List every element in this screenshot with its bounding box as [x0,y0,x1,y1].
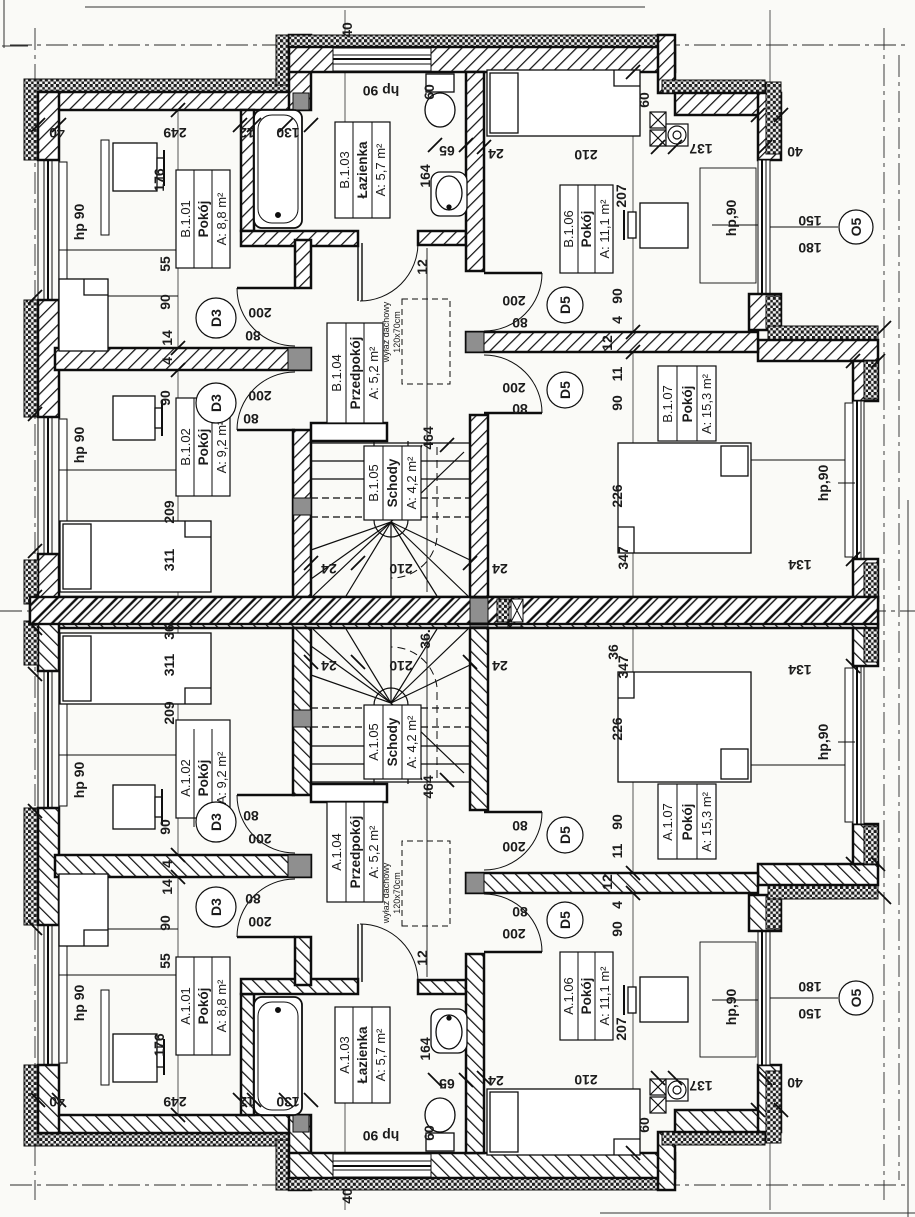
svg-text:A.1.05: A.1.05 [366,723,381,761]
right wall lower window [853,401,864,559]
svg-text:40: 40 [787,144,803,160]
svg-text:137: 137 [689,141,713,157]
room label A.1.02 Pokój [176,720,230,827]
svg-text:209: 209 [161,701,177,725]
svg-text:wyłaz dachowy: wyłaz dachowy [381,301,391,363]
door/window symbol D3 [196,802,236,842]
svg-text:120x70cm: 120x70cm [392,311,402,353]
svg-text:Pokój: Pokój [196,760,211,797]
svg-text:A.1.04: A.1.04 [329,833,344,871]
right step wall horizontal [758,340,878,361]
outer wall: top-center [289,47,675,72]
room label A.1.06 Pokój [560,952,613,1040]
toilet [425,74,455,127]
wall between B.1.01 and bathroom [241,110,254,231]
svg-text:A: 15,3 m²: A: 15,3 m² [699,791,714,852]
svg-text:hp 90: hp 90 [71,762,87,799]
svg-text:40: 40 [339,22,355,38]
svg-text:12: 12 [414,950,430,966]
svg-text:55: 55 [157,256,173,272]
svg-text:D5: D5 [557,911,573,929]
svg-text:200: 200 [248,914,272,930]
door/window symbol D3 [196,383,236,423]
svg-text:200: 200 [502,926,526,942]
svg-text:249: 249 [163,1094,187,1110]
svg-text:60: 60 [636,92,652,108]
door D3 to B.1.02 [237,372,295,430]
svg-text:Przedpokój: Przedpokój [348,337,363,410]
svg-text:90: 90 [157,390,173,406]
svg-text:24: 24 [321,658,337,674]
gray block end of mid wall [288,348,311,370]
bathroom south wall east part [418,231,466,245]
stair well rail [374,441,408,537]
right wall pier below window [749,294,781,330]
svg-text:24: 24 [492,561,508,577]
svg-text:210: 210 [389,561,413,577]
svg-text:O5: O5 [848,988,864,1007]
stair treads [311,443,470,517]
svg-text:A: 5,2 m²: A: 5,2 m² [366,346,381,399]
svg-text:80: 80 [243,808,259,824]
svg-text:B.1.06: B.1.06 [561,210,576,248]
svg-text:55: 55 [157,953,173,969]
step wall at x658 [658,35,675,93]
svg-text:A: 4,2 m²: A: 4,2 m² [404,456,419,509]
svg-text:130: 130 [276,1094,300,1110]
left wall pier mid + insulation [24,300,38,417]
svg-text:176: 176 [151,168,167,192]
svg-text:80: 80 [512,904,528,920]
svg-text:12: 12 [599,874,615,890]
gray lintel in top-left wall [293,93,309,110]
svg-text:226: 226 [609,717,625,741]
left wall window 2 [38,417,52,554]
svg-text:4: 4 [609,316,625,324]
svg-text:D3: D3 [208,309,224,327]
svg-text:347: 347 [615,546,631,570]
left wall bottom pier [38,554,59,604]
svg-text:hp 90: hp 90 [363,83,400,99]
svg-text:12: 12 [599,335,615,351]
svg-text:40: 40 [49,125,65,141]
door D3 to B.1.01 [237,288,295,346]
gray block mid wall right [466,332,484,352]
hp90 leader B.1.06 [712,224,758,226]
svg-text:90: 90 [609,288,625,304]
O5 leader [770,226,838,228]
svg-text:60: 60 [421,1125,437,1141]
desk B.1.01 [113,143,164,191]
bathroom east wall [466,72,484,271]
svg-text:150: 150 [798,1006,822,1022]
svg-text:176: 176 [151,1033,167,1057]
svg-text:B.1.07: B.1.07 [660,385,675,423]
svg-text:hp 90: hp 90 [71,427,87,464]
party wall [30,597,878,612]
sill rect right lower window [845,403,853,557]
svg-text:249: 249 [163,125,187,141]
svg-text:14: 14 [159,879,175,895]
svg-text:A: 5,7 m²: A: 5,7 m² [373,143,388,196]
washbasin [431,172,467,216]
svg-text:137: 137 [689,1078,713,1094]
svg-text:134: 134 [788,662,812,678]
svg-text:A: 9,2 m²: A: 9,2 m² [214,751,229,804]
party wall bold band [30,597,878,624]
svg-text:24: 24 [492,658,508,674]
right wall upper window [758,160,770,294]
svg-text:12: 12 [239,125,255,141]
outer wall: top-right insulation [662,80,765,93]
outer wall: top-left section insulation [25,79,290,92]
svg-text:200: 200 [248,831,272,847]
svg-text:311: 311 [161,548,177,571]
svg-text:A: 9,2 m²: A: 9,2 m² [214,420,229,473]
svg-text:hp,90: hp,90 [723,989,739,1026]
door D5 to B.1.06 [484,273,542,331]
step wall at x289 [276,35,289,85]
svg-text:A.1.07: A.1.07 [660,803,675,841]
svg-text:210: 210 [574,1072,598,1088]
svg-text:60: 60 [421,84,437,100]
svg-text:36: 36 [161,624,177,640]
desk B.1.06 [624,203,688,248]
svg-text:B.1.01: B.1.01 [178,200,193,238]
outer wall: top-center insulation [289,35,675,47]
svg-text:134: 134 [788,557,812,573]
svg-text:60: 60 [636,1117,652,1133]
svg-text:hp 90: hp 90 [71,204,87,241]
svg-text:hp,90: hp,90 [815,724,831,761]
dim line y296 [100,295,178,297]
svg-text:200: 200 [248,388,272,404]
svg-text:65: 65 [439,143,455,159]
door/window symbol D5 [547,817,583,853]
door D5 to B.1.07 [484,355,542,413]
svg-text:A: 5,2 m²: A: 5,2 m² [366,825,381,878]
svg-text:A.1.06: A.1.06 [561,977,576,1015]
door/window symbol O5 [839,981,873,1015]
svg-text:164: 164 [417,164,433,188]
svg-text:hp 90: hp 90 [363,1128,400,1144]
bed B.1.02 [60,521,211,592]
desk B.1.02 [113,396,162,440]
sill rect B.1.06 [700,168,756,283]
vent shafts + boiler top right [650,112,688,146]
radiator B.1.01 [101,140,109,235]
svg-text:90: 90 [609,921,625,937]
svg-text:14: 14 [159,330,175,346]
svg-text:D3: D3 [208,813,224,831]
door/window symbol D5 [547,287,583,323]
vent shafts party wall [497,598,508,610]
room label B.1.02 Pokój [176,398,230,496]
bathroom south wall west part [241,231,358,246]
svg-text:B.1.04: B.1.04 [329,354,344,392]
bathtub [254,110,302,228]
room label A.1.03 Łazienka [335,1007,390,1103]
svg-text:12: 12 [414,259,430,275]
svg-text:D3: D3 [208,394,224,412]
door/window symbol D5 [547,902,583,938]
svg-text:150: 150 [798,213,822,229]
svg-text:226: 226 [609,484,625,508]
svg-text:A: 4,2 m²: A: 4,2 m² [404,715,419,768]
svg-text:A: 8,8 m²: A: 8,8 m² [214,192,229,245]
door/window symbol O5 [839,210,873,244]
svg-text:A: 5,7 m²: A: 5,7 m² [373,1028,388,1081]
mid wall left (between B.1.01 and B.1.02) [55,348,311,370]
svg-text:200: 200 [502,293,526,309]
svg-text:B.1.05: B.1.05 [366,464,381,502]
svg-text:36.: 36. [417,629,433,648]
party wall gray blocks [470,598,488,623]
door/window symbol D3 [196,887,236,927]
svg-text:B.1.02: B.1.02 [178,428,193,466]
svg-text:200: 200 [248,305,272,321]
bed B.1.06 [487,70,640,136]
svg-text:4: 4 [159,860,175,868]
svg-text:11: 11 [609,366,625,381]
svg-text:4: 4 [609,901,625,909]
right step wall horizontal insulation [768,326,878,340]
svg-text:A: 11,1 m²: A: 11,1 m² [597,199,612,259]
room label A.1.04 Przedpokój [327,802,383,902]
left wall window 1 [38,110,59,597]
svg-text:200: 200 [502,839,526,855]
svg-text:90: 90 [157,294,173,310]
svg-text:210: 210 [574,147,598,163]
svg-text:hp 90: hp 90 [71,985,87,1022]
svg-text:Pokój: Pokój [680,386,695,423]
svg-text:11: 11 [609,843,625,858]
left corner insulation [24,79,38,160]
svg-text:80: 80 [245,328,261,344]
svg-text:wyłaz dachowy: wyłaz dachowy [381,862,391,924]
outer wall: top-left section [25,92,290,110]
bed B.1.07 [618,443,751,553]
svg-text:207: 207 [613,1017,629,1041]
hp90 leader right [838,482,855,484]
svg-text:90: 90 [157,915,173,931]
svg-text:80: 80 [512,818,528,834]
room label B.1.03 Łazienka [335,122,390,218]
svg-text:90: 90 [157,819,173,835]
svg-text:A: 11,1 m²: A: 11,1 m² [597,966,612,1026]
svg-text:80: 80 [243,411,259,427]
svg-text:120x70cm: 120x70cm [392,872,402,914]
mid wall right (between B.1.06 and B.1.07) [466,332,758,352]
svg-text:40: 40 [339,1188,355,1204]
outer wall: top-right [675,93,765,115]
svg-text:D5: D5 [557,381,573,399]
svg-text:464: 464 [420,775,436,799]
svg-text:hp,90: hp,90 [723,200,739,237]
roof hatch dashed rect [402,299,450,384]
svg-text:Łazienka: Łazienka [355,1026,370,1084]
dim ticks [28,65,891,604]
corridor door stub wall [295,240,311,288]
svg-text:A.1.01: A.1.01 [178,987,193,1025]
left corner wall pier [38,92,59,160]
svg-text:A: 15,3 m²: A: 15,3 m² [699,373,714,434]
svg-text:Pokój: Pokój [680,804,695,841]
room label A.1.07 Pokój [658,784,716,859]
svg-text:180: 180 [798,979,822,995]
svg-text:4: 4 [159,357,175,365]
right wall upper pier [758,93,781,160]
svg-text:209: 209 [161,500,177,524]
room label A.1.01 Pokój [176,957,230,1055]
right wall bottom pier [853,559,878,601]
bed B.1.01 [59,279,108,351]
svg-text:40: 40 [787,1075,803,1091]
window sill rect left w1 [59,162,67,298]
svg-text:80: 80 [245,891,261,907]
room label B.1.01 Pokój [176,170,230,268]
door/window symbol D3 [196,298,236,338]
svg-text:80: 80 [512,401,528,417]
svg-text:D3: D3 [208,898,224,916]
svg-text:Pokój: Pokój [579,211,594,248]
svg-text:80: 80 [512,315,528,331]
svg-text:D5: D5 [557,296,573,314]
room label A.1.05 Schody [364,705,421,779]
svg-text:O5: O5 [848,217,864,236]
room label B.1.05 Schody [364,446,421,520]
svg-text:Pokój: Pokój [579,978,594,1015]
stair winder fan [311,445,470,596]
svg-text:65: 65 [439,1076,455,1092]
svg-text:90: 90 [609,395,625,411]
right wall lower pier [853,361,878,401]
room label B.1.04 Przedpokój [327,323,383,423]
svg-text:180: 180 [798,240,822,256]
svg-text:Pokój: Pokój [196,429,211,466]
svg-text:24: 24 [488,146,504,162]
svg-text:Łazienka: Łazienka [355,141,370,199]
svg-text:Pokój: Pokój [196,201,211,238]
svg-text:Schody: Schody [385,458,400,507]
svg-text:24: 24 [321,561,337,577]
stairwell west wall [293,430,311,597]
svg-text:Schody: Schody [385,717,400,766]
svg-text:200: 200 [502,380,526,396]
room label B.1.06 Pokój [560,185,613,273]
svg-text:464: 464 [420,426,436,450]
svg-text:207: 207 [613,184,629,208]
svg-text:12: 12 [239,1094,255,1110]
svg-text:40: 40 [49,1094,65,1110]
stairwell east wall [470,415,488,597]
svg-text:A.1.03: A.1.03 [337,1036,352,1074]
svg-text:164: 164 [417,1037,433,1061]
svg-text:24: 24 [488,1073,504,1089]
svg-text:B.1.03: B.1.03 [337,151,352,189]
svg-text:A: 8,8 m²: A: 8,8 m² [214,979,229,1032]
room label B.1.07 Pokój [658,366,716,441]
door/window symbol D5 [547,372,583,408]
svg-text:hp,90: hp,90 [815,465,831,502]
svg-text:A.1.02: A.1.02 [178,759,193,797]
svg-text:311: 311 [161,653,177,676]
svg-text:Pokój: Pokój [196,988,211,1025]
svg-text:210: 210 [389,658,413,674]
walk line dashed [391,447,437,578]
svg-text:36: 36 [605,644,621,660]
svg-text:D5: D5 [557,826,573,844]
window in top-center wall [333,48,431,71]
bathroom door leaf and arc [358,243,418,301]
stair landing edge [311,423,387,441]
svg-text:130: 130 [276,125,300,141]
svg-text:Przedpokój: Przedpokój [348,816,363,889]
svg-text:90: 90 [609,814,625,830]
window sill rect left w2 [59,419,67,552]
hp90 leader left [59,249,205,251]
